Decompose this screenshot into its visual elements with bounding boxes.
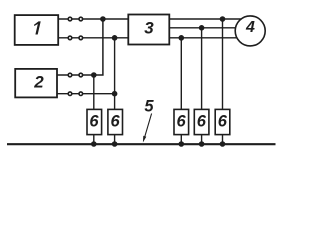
wire V7: drop from wire E to fuse 6e [222,19,224,109]
block 2 [15,69,57,98]
fuse 6c [174,109,189,134]
fuse 6e [215,109,230,134]
svg-text:5: 5 [144,97,154,115]
junction dot on wire E [220,16,226,22]
svg-text:2: 2 [33,73,44,92]
busbar 5 [7,143,276,145]
wire G: block 3 bottom output to indicator 4 [169,37,237,39]
block 3 [128,15,169,45]
svg-text:3: 3 [144,19,154,38]
wire: fuse 6e to busbar [222,135,224,145]
wire A: block 1 top output to block 3 [58,18,129,20]
busbar junction dot b [112,141,118,147]
indicator 4 [235,16,265,46]
junction dot on wire D [112,91,118,97]
busbar junction dot d [199,141,205,147]
contact pair on wire C [68,73,72,77]
svg-text:6: 6 [89,112,99,130]
wire V6: drop from wire F2 to fuse 6d [201,28,203,110]
fuse 6b [108,109,123,134]
junction dot on wire F2 [199,25,205,31]
contact pair on wire D [68,92,72,96]
wire D: block 2 bottom output to junction on riser V3 [57,93,115,95]
svg-text:6: 6 [177,112,187,130]
junction dot on wire C [91,72,97,78]
junction dot on wire B [112,35,118,41]
busbar junction dot a [91,141,97,147]
wire C: block 2 top output, corner up to junction on wire A [57,19,103,75]
contact pair on wire B [68,36,72,40]
wire V5: drop from wire G to fuse 6c [180,38,182,110]
wire V4: drop from wire C to fuse 6a [93,75,95,109]
busbar junction dot e [220,141,226,147]
junction dot on wire A [100,16,106,22]
wire: fuse 6d to busbar [201,135,203,145]
wire: fuse 6a to busbar [93,135,95,145]
wire E: block 3 top output to indicator 4 [169,18,241,20]
svg-text:6: 6 [197,112,207,130]
block 1 [15,15,59,45]
svg-text:6: 6 [111,112,121,130]
fuse 6a [87,109,102,134]
fuse 6d [194,109,209,134]
svg-text:6: 6 [218,112,228,130]
contact pair on wire A [68,17,72,21]
label 5 with leader arrow to busbar [143,97,155,142]
wire B: block 1 bottom output to block 3 [58,37,129,39]
junction dot on wire G [179,35,185,41]
wire: fuse 6b to busbar [114,135,116,145]
svg-text:4: 4 [245,19,255,36]
wire F2: block 3 middle output to indicator 4 [169,27,236,29]
busbar junction dot c [179,141,185,147]
wire V3: riser from wire B down to fuse 6b [114,38,116,110]
wire: fuse 6c to busbar [180,135,182,145]
